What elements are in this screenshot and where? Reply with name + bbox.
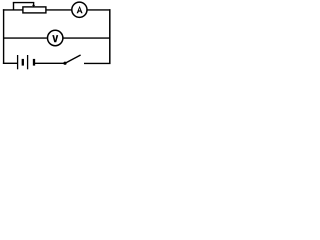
battery cell 2 short plate — [33, 59, 35, 66]
wire: left vertical of loop — [3, 9, 5, 64]
voltmeter V (circle) — [48, 30, 63, 45]
switch blade (open) — [65, 55, 81, 64]
switch pivot dot — [63, 62, 66, 65]
wire: middle branch right segment — [63, 37, 110, 39]
wire: bottom wire from left corner to battery — [3, 62, 18, 64]
battery cell 1 long plate — [17, 55, 19, 69]
ammeter label A — [77, 6, 83, 13]
wire: rheostat to ammeter — [46, 9, 72, 11]
ammeter A (circle) — [72, 2, 87, 17]
battery cell 1 short plate — [22, 59, 24, 66]
wire: right vertical of loop — [109, 9, 111, 64]
voltmeter label V — [52, 35, 58, 42]
wire: ammeter to top-right corner — [87, 9, 110, 11]
wire: top wire from left corner to rheostat box — [3, 9, 23, 11]
rheostat slider riser — [13, 3, 15, 10]
rheostat slider arm horizontal — [13, 2, 35, 4]
wire: middle branch left segment — [3, 37, 47, 39]
resistor R (rheostat box) — [23, 7, 46, 13]
rheostat slider arrowhead — [32, 5, 35, 7]
wire: battery to switch — [35, 62, 64, 64]
wire: switch right contact to bottom-right corner — [84, 62, 111, 64]
battery cell 2 long plate — [27, 55, 29, 69]
rheostat slider drop — [33, 3, 35, 6]
